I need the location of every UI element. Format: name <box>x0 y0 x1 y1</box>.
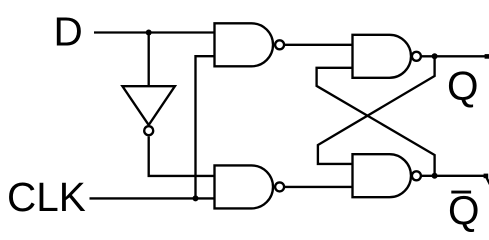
NAND gate U1 <box>215 23 274 66</box>
terminal Q end stub <box>485 54 489 59</box>
wire U4 output to Qbar terminal <box>422 175 486 177</box>
NAND gate U4 output bubble <box>412 171 421 180</box>
terminal Qbar end stub <box>484 174 489 179</box>
wire U3 output to Q terminal <box>422 55 487 57</box>
NAND gate U2 <box>215 165 274 208</box>
wire Q feedback to U4 input A <box>318 56 435 164</box>
NAND gate U2 output bubble <box>275 182 284 191</box>
svg-text:D: D <box>54 8 83 54</box>
inverter U5 <box>122 86 174 125</box>
NAND gate U3 <box>353 35 412 78</box>
terminal Qbar clipped lead <box>486 177 489 184</box>
wire CLK input <box>90 197 215 199</box>
NAND gate U4 <box>353 154 411 197</box>
wire U1 output to U3 input A <box>285 44 353 46</box>
node Qbar <box>432 173 438 179</box>
node D junction <box>146 30 152 36</box>
svg-text:Q: Q <box>447 63 479 109</box>
wire CLK junction to U1 input B <box>196 56 215 198</box>
NAND gate U3 output bubble <box>412 52 421 61</box>
svg-text:CLK: CLK <box>7 174 86 220</box>
wire U2 output to U4 input B <box>285 186 353 188</box>
wire inverter output to U2 input A <box>149 136 215 176</box>
wire Qbar feedback to U3 input B <box>317 68 435 176</box>
wire D input <box>94 31 215 33</box>
svg-text:Q: Q <box>448 188 480 234</box>
inverter U5 output bubble <box>144 126 153 135</box>
NAND gate U1 output bubble <box>275 40 284 49</box>
label Qbar overline <box>451 191 471 194</box>
node CLK junction <box>193 195 199 201</box>
wire D junction to inverter input <box>148 33 150 87</box>
node Q <box>432 53 438 59</box>
